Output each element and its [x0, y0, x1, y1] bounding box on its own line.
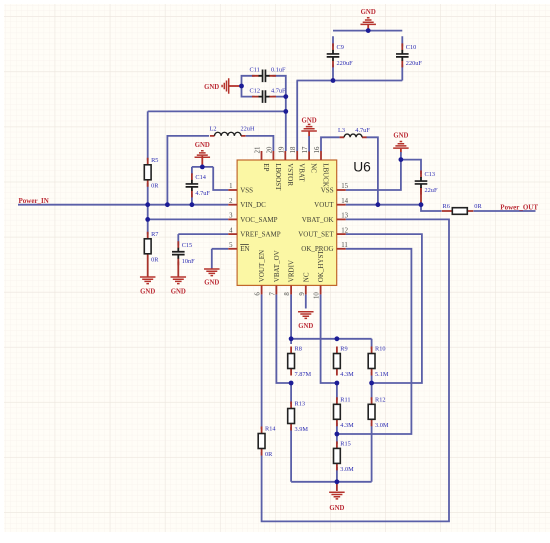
svg-text:8: 8	[284, 292, 291, 296]
svg-text:220uF: 220uF	[337, 60, 354, 67]
svg-text:R14: R14	[265, 426, 276, 433]
pin 11 OK_PROG	[301, 242, 347, 253]
node Power_IN port	[19, 197, 49, 205]
ground GND top of C9 C10	[360, 9, 376, 24]
wire bottom divider row	[291, 481, 372, 483]
wire pin 7 VBAT_OV to R8 bottom	[276, 294, 291, 383]
resistor R7	[144, 231, 159, 277]
resistor R15	[334, 441, 355, 473]
resistor R10	[368, 346, 389, 378]
svg-text:VIN_DC: VIN_DC	[240, 201, 266, 209]
wire C9-C10 bottom	[297, 80, 403, 82]
wire Power_IN net	[18, 204, 228, 206]
svg-text:1: 1	[229, 183, 232, 190]
svg-text:VBAT_OV: VBAT_OV	[273, 250, 281, 282]
node gnd C13	[399, 157, 404, 162]
svg-text:19: 19	[278, 146, 285, 153]
wire R13 column	[290, 383, 292, 482]
svg-text:0R: 0R	[474, 203, 482, 210]
pin 16 LBUCK	[314, 146, 330, 187]
wire C9-C10 top	[333, 30, 402, 32]
node Power_OUT port	[500, 203, 538, 211]
svg-text:GND: GND	[302, 118, 317, 125]
svg-text:C10: C10	[406, 44, 417, 51]
svg-text:4.7uF: 4.7uF	[195, 190, 210, 197]
node R8 R13	[289, 381, 294, 386]
svg-text:EP: EP	[262, 163, 270, 171]
svg-text:C9: C9	[337, 44, 344, 51]
wire pin 10 OK_HYST to R9 bottom	[321, 294, 337, 383]
svg-text:5: 5	[229, 242, 233, 249]
capacitor C12	[250, 87, 287, 103]
svg-text:7: 7	[269, 292, 276, 296]
wire R5 column	[147, 111, 149, 204]
wire pin 6 VOUT_EN column	[261, 294, 263, 429]
svg-text:3.9M: 3.9M	[295, 426, 309, 433]
svg-text:R5: R5	[151, 157, 158, 164]
svg-text:VOC_SAMP: VOC_SAMP	[240, 216, 277, 224]
svg-text:GND: GND	[298, 323, 313, 330]
svg-text:VBAT_OK: VBAT_OK	[302, 216, 334, 224]
svg-text:Power_IN: Power_IN	[19, 197, 49, 205]
pin 9 NC	[299, 272, 311, 295]
pin 13 VBAT_OK	[302, 213, 349, 224]
node bus R8	[289, 336, 294, 341]
svg-text:VSS: VSS	[321, 186, 334, 194]
node R9 R11	[335, 381, 340, 386]
ground GND below pin 9 NC	[298, 312, 314, 330]
capacitor C15	[172, 241, 195, 265]
svg-text:3.0M: 3.0M	[375, 422, 389, 429]
svg-text:VSTOR: VSTOR	[286, 163, 294, 186]
svg-text:L2: L2	[210, 126, 217, 133]
svg-text:C12: C12	[250, 87, 261, 94]
node C13 VOUT	[419, 202, 424, 207]
wire pin 4 to C15	[178, 234, 228, 245]
svg-text:4.3M: 4.3M	[340, 371, 354, 378]
pin 5 EN	[228, 242, 249, 253]
wire pin 15 VSS to gnd	[346, 160, 401, 190]
capacitor C9	[327, 43, 353, 67]
wire R10 leads	[371, 339, 373, 383]
wire pin 9 NC to ground	[305, 294, 307, 308]
svg-text:4.7uF: 4.7uF	[355, 127, 370, 134]
svg-text:GND: GND	[171, 289, 186, 296]
svg-text:R10: R10	[375, 346, 386, 353]
svg-text:6: 6	[255, 292, 262, 296]
svg-text:5.1M: 5.1M	[375, 371, 389, 378]
wire gnd to C14 junction	[201, 156, 203, 167]
svg-text:10: 10	[314, 292, 321, 299]
ground GND above pin 17 NC stub	[308, 131, 310, 152]
svg-text:3: 3	[229, 213, 233, 220]
ground GND below R7	[140, 277, 156, 296]
node L2 riser	[165, 202, 170, 207]
pin 8 VRDIV	[284, 260, 296, 296]
svg-text:NC: NC	[310, 163, 318, 173]
resistor R14	[258, 426, 276, 458]
pin 21 EP	[255, 147, 271, 172]
svg-text:R13: R13	[295, 401, 306, 408]
svg-text:GND: GND	[204, 279, 219, 286]
svg-text:18: 18	[290, 146, 297, 153]
ground GND left stub	[229, 85, 242, 87]
svg-text:21: 21	[255, 147, 262, 154]
svg-text:14: 14	[341, 198, 348, 205]
ground GND below R15	[329, 492, 345, 512]
wire C15 to ground	[177, 262, 179, 277]
svg-text:C14: C14	[195, 174, 206, 181]
svg-text:GND: GND	[195, 142, 210, 149]
wire gnd riser right	[400, 152, 402, 160]
wire pin 16 to L3 to VOUT	[321, 137, 378, 204]
wire VBAT riser to pin 18	[296, 81, 298, 152]
svg-text:GND: GND	[393, 133, 408, 140]
svg-text:VSS: VSS	[240, 186, 253, 194]
wire pin 8 VRDIV column	[290, 294, 292, 344]
wire C9 leads	[332, 36, 334, 80]
svg-text:9: 9	[299, 292, 306, 296]
wire C11 branch	[242, 76, 286, 97]
svg-text:0.1uF: 0.1uF	[271, 67, 286, 74]
svg-text:12: 12	[341, 227, 348, 234]
svg-text:L3: L3	[338, 127, 345, 134]
node bus R9	[335, 336, 340, 341]
wire C12 branch	[242, 86, 286, 97]
svg-text:GND: GND	[204, 84, 219, 91]
wire resistor bus	[291, 338, 372, 340]
svg-text:C11: C11	[250, 67, 260, 74]
pin 1 VSS	[228, 183, 253, 194]
svg-text:EN: EN	[240, 245, 249, 253]
pin 14 VOUT	[314, 198, 348, 209]
svg-text:R15: R15	[340, 441, 351, 448]
ground GND at C11 C12	[204, 78, 229, 94]
pin 2 VIN_DC	[228, 198, 266, 209]
svg-text:22uH: 22uH	[241, 126, 255, 133]
svg-text:4.3M: 4.3M	[340, 422, 354, 429]
ground GND below C15	[171, 277, 187, 296]
svg-text:220uF: 220uF	[406, 60, 423, 67]
wire pin 11 OK_PROG to R11 bottom	[337, 249, 412, 434]
svg-text:VREF_SAMP: VREF_SAMP	[240, 231, 281, 239]
wire top-left horizontal	[148, 110, 286, 112]
pin 7 VBAT_OV	[269, 250, 281, 295]
pin 12 VOUT_SET	[298, 227, 348, 238]
ground GND right near C13	[393, 133, 409, 148]
svg-text:3.0M: 3.0M	[340, 466, 354, 473]
pin 4 VREF_SAMP	[228, 227, 280, 238]
node VSTOR riser	[283, 109, 288, 114]
capacitor C11	[250, 67, 287, 83]
svg-text:11: 11	[341, 242, 348, 249]
svg-text:GND: GND	[140, 289, 155, 296]
svg-text:VOUT: VOUT	[314, 201, 334, 209]
wire pin 5 EN to ground	[212, 249, 229, 269]
ground GND below pin 5 EN	[204, 269, 220, 286]
svg-text:VBAT: VBAT	[298, 163, 306, 182]
resistor R8	[288, 346, 312, 378]
svg-text:R9: R9	[340, 346, 347, 353]
svg-text:GND: GND	[361, 9, 376, 16]
svg-text:R12: R12	[375, 397, 386, 404]
IC U6 body	[237, 160, 371, 286]
node R10 R12	[369, 381, 374, 386]
wire C14 branch	[192, 167, 213, 205]
wire pin 12 VOUT_SET to R10 bottom	[346, 234, 422, 383]
svg-text:GND: GND	[329, 505, 344, 512]
node L3 VOUT	[376, 202, 381, 207]
svg-text:16: 16	[314, 146, 321, 153]
ground GND above C14	[195, 142, 211, 157]
svg-text:4.7uF: 4.7uF	[271, 87, 286, 94]
svg-text:Power_OUT: Power_OUT	[500, 203, 538, 211]
svg-text:15: 15	[341, 183, 348, 190]
pin 3 VOC_SAMP	[228, 213, 277, 224]
node gnd C14	[200, 165, 205, 170]
wire pin 13 VBAT_OK big loop	[262, 219, 449, 521]
pin 18 VBAT	[290, 146, 306, 182]
wire L2 loop to pin 20	[167, 136, 273, 205]
capacitor C14	[186, 173, 211, 197]
pin 15 VSS	[321, 183, 349, 194]
svg-text:0R: 0R	[151, 182, 159, 189]
svg-text:VOUT_SET: VOUT_SET	[298, 231, 334, 239]
pin 6 VOUT_EN	[255, 250, 267, 296]
svg-text:R6: R6	[443, 203, 450, 210]
resistor R5	[144, 157, 159, 189]
wire gnd to C13 top	[401, 160, 421, 174]
wire VOUT to R6	[346, 205, 442, 211]
svg-text:2: 2	[229, 198, 233, 205]
wire R11-R15 column	[336, 383, 338, 482]
capacitor C10	[396, 43, 422, 67]
node C11 C12 left	[239, 84, 244, 89]
svg-text:VOUT_EN: VOUT_EN	[258, 250, 266, 282]
resistor R11	[334, 397, 355, 429]
node R5 Power_IN	[145, 202, 150, 207]
svg-text:22uF: 22uF	[425, 187, 438, 194]
wire C13 bottom lead	[420, 187, 422, 205]
wire R12 column	[371, 383, 373, 482]
inductor L2	[210, 126, 255, 136]
svg-text:20: 20	[266, 146, 273, 153]
ground GND top	[367, 24, 369, 30]
node R7 pin3	[145, 217, 150, 222]
inductor L3	[338, 127, 370, 137]
wire C10 leads	[401, 36, 403, 80]
wire R15 to ground	[336, 482, 338, 491]
svg-text:R8: R8	[295, 346, 302, 353]
node C14 bottom	[190, 202, 195, 207]
node R11 R15	[335, 432, 340, 437]
resistor R9	[334, 346, 355, 378]
resistor R6	[442, 203, 483, 214]
svg-text:R7: R7	[151, 231, 158, 238]
svg-text:7.87M: 7.87M	[295, 371, 312, 378]
svg-text:LBUCK: LBUCK	[322, 163, 330, 187]
wire to pin 1 VSS	[213, 167, 228, 190]
svg-text:VRDIV: VRDIV	[288, 260, 296, 282]
node C12 right	[283, 94, 288, 99]
resistor R12	[368, 397, 389, 429]
wire R6 to Power_OUT	[474, 210, 536, 212]
svg-text:OK_HYST: OK_HYST	[317, 250, 325, 283]
svg-text:U6: U6	[353, 160, 371, 175]
wire pin 3 and R7 top	[148, 205, 229, 235]
node gnd-C9C10 top	[366, 28, 371, 33]
resistor R13	[288, 401, 309, 433]
svg-text:0R: 0R	[265, 451, 273, 458]
svg-text:C15: C15	[182, 242, 193, 249]
pin 19 VSTOR	[278, 146, 294, 186]
wire VSTOR riser to pin 19	[285, 97, 287, 151]
ground GND above pin 17 NC	[301, 118, 317, 131]
pin 10 OK_HYST	[314, 250, 326, 299]
capacitor C13	[415, 171, 438, 195]
node R15 gnd	[335, 479, 340, 484]
svg-text:NC: NC	[302, 272, 310, 282]
svg-text:4: 4	[229, 227, 233, 234]
svg-text:0R: 0R	[151, 256, 159, 263]
pin 20 LBOOST	[266, 146, 282, 191]
svg-text:17: 17	[302, 146, 309, 153]
svg-text:C13: C13	[425, 171, 436, 178]
wire gnd riser right stub	[400, 149, 402, 153]
svg-text:10nF: 10nF	[182, 258, 195, 265]
svg-text:13: 13	[341, 213, 348, 220]
svg-text:LBOOST: LBOOST	[274, 163, 282, 191]
node C9 bottom	[331, 78, 336, 83]
pin 17 NC	[302, 146, 318, 173]
svg-text:R11: R11	[340, 397, 350, 404]
